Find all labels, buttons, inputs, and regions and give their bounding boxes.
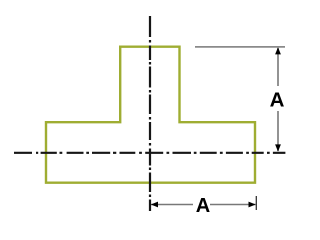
arrow down (275, 144, 281, 151)
svg-text:A: A (196, 195, 210, 217)
dimension line A horizontal (bottom) (151, 204, 193, 206)
svg-text:A: A (270, 88, 285, 111)
vertical centerline (149, 16, 151, 211)
arrow up (275, 47, 281, 54)
extension line bottom right tick (255, 196, 257, 210)
arrow left (151, 202, 158, 208)
arrow right (249, 202, 256, 208)
dimension line A vertical (right) (277, 48, 279, 86)
extension line top right (195, 46, 285, 48)
tee body outline (46, 47, 255, 183)
horizontal centerline (14, 152, 285, 154)
